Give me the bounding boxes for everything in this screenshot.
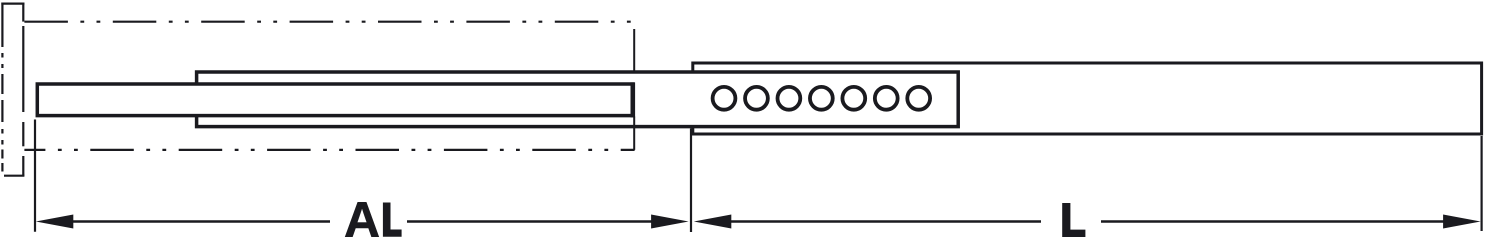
svg-text:A: A bbox=[344, 192, 380, 238]
